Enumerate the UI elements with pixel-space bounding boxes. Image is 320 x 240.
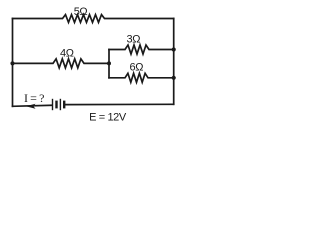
svg-text:4Ω: 4Ω (60, 48, 74, 60)
svg-text:3Ω: 3Ω (127, 34, 141, 46)
svg-text:6Ω: 6Ω (130, 61, 144, 73)
svg-text:5Ω: 5Ω (74, 6, 88, 18)
svg-text:I = ?: I = ? (24, 91, 44, 105)
svg-text:E = 12V: E = 12V (89, 112, 127, 124)
